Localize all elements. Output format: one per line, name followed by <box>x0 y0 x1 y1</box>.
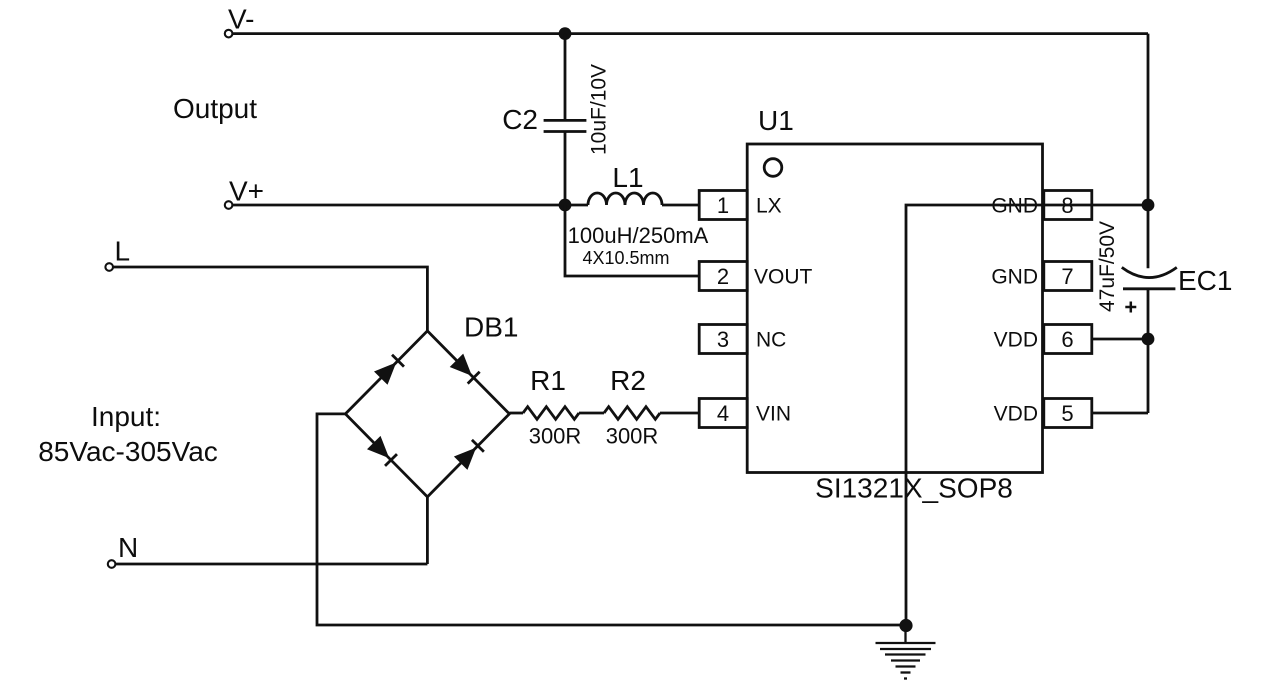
svg-text:4X10.5mm: 4X10.5mm <box>582 248 669 268</box>
svg-text:47uF/50V: 47uF/50V <box>1096 221 1119 312</box>
svg-text:100uH/250mA: 100uH/250mA <box>568 223 709 248</box>
svg-text:U1: U1 <box>758 105 794 136</box>
wire VOUT branch <box>565 205 699 276</box>
terminal V- <box>225 3 255 37</box>
svg-text:C2: C2 <box>502 104 538 135</box>
svg-text:L1: L1 <box>612 162 643 193</box>
terminal L <box>105 236 130 271</box>
capacitor EC1 <box>1122 265 1233 413</box>
svg-text:N: N <box>118 532 138 563</box>
svg-text:6: 6 <box>1061 327 1073 352</box>
svg-text:LX: LX <box>756 195 782 218</box>
svg-text:V-: V- <box>228 3 254 34</box>
ground <box>876 630 936 679</box>
svg-text:VDD: VDD <box>994 403 1038 426</box>
junction dot ground <box>899 619 912 632</box>
bridge DB1 <box>345 312 518 497</box>
wire R2 to pin 4 <box>660 412 699 415</box>
pin 3 box <box>699 325 786 354</box>
svg-text:5: 5 <box>1061 401 1073 426</box>
svg-text:GND: GND <box>991 266 1038 289</box>
wire pin 5 to EC1 column <box>1092 412 1148 415</box>
junction dot GND / EC1 <box>1142 199 1155 212</box>
svg-text:Output: Output <box>173 93 257 124</box>
wire N to bridge bottom <box>116 497 428 564</box>
junction dot pin6 / EC1 <box>1142 333 1155 346</box>
pin 6 box <box>994 325 1092 354</box>
svg-text:4: 4 <box>717 401 729 426</box>
diode D-topleft (anode left vertex) <box>374 354 405 385</box>
junction dot V- / C2 <box>559 27 572 40</box>
svg-text:VOUT: VOUT <box>754 266 813 289</box>
wire bridge plus to R1 <box>509 412 523 415</box>
svg-text:Input:: Input: <box>91 401 161 432</box>
svg-text:VIN: VIN <box>756 403 791 426</box>
terminal V+ <box>225 176 264 209</box>
svg-text:R2: R2 <box>610 365 646 396</box>
resistor R1 <box>523 365 581 449</box>
pin 1 box <box>699 191 781 220</box>
capacitor C2 <box>502 34 586 205</box>
wire L1 to pin 1 <box>662 204 699 207</box>
wire V+ <box>233 204 589 207</box>
pin 8 box <box>991 191 1091 220</box>
wire V- rail <box>233 32 1149 35</box>
junction dot V+ / C2 / L1 <box>559 199 572 212</box>
svg-text:300R: 300R <box>529 424 582 449</box>
wire pin 6 to EC1 <box>1092 338 1148 341</box>
diode D-bottomleft (anode left vertex) <box>367 436 398 467</box>
svg-text:SI1321X_SOP8: SI1321X_SOP8 <box>815 473 1013 504</box>
svg-text:R1: R1 <box>530 365 566 396</box>
svg-text:7: 7 <box>1061 264 1073 289</box>
IC U1 body <box>747 105 1042 473</box>
svg-text:V+: V+ <box>229 176 264 207</box>
svg-text:85Vac-305Vac: 85Vac-305Vac <box>38 436 218 467</box>
terminal N <box>108 532 138 568</box>
svg-text:EC1: EC1 <box>1178 265 1232 296</box>
svg-text:2: 2 <box>717 264 729 289</box>
resistor R2 <box>604 365 660 449</box>
svg-text:300R: 300R <box>606 424 659 449</box>
svg-text:3: 3 <box>717 327 729 352</box>
wire R1 to R2 <box>579 412 604 415</box>
inductor L1 <box>588 162 662 205</box>
svg-text:1: 1 <box>717 193 729 218</box>
pin 7 box <box>991 262 1091 291</box>
svg-text:VDD: VDD <box>994 329 1038 352</box>
wire bridge minus to bottom rail <box>317 414 906 625</box>
diode D-bottomright (cathode right vertex) <box>454 439 485 470</box>
svg-text:DB1: DB1 <box>464 312 518 343</box>
pin 5 box <box>994 399 1092 428</box>
wire L to bridge top <box>113 267 427 331</box>
svg-text:10uF/10V: 10uF/10V <box>588 64 611 155</box>
svg-text:L: L <box>115 236 131 267</box>
svg-text:NC: NC <box>756 329 786 352</box>
wire GND net (pin 8 to EC1 and down to ground) <box>906 205 1148 626</box>
pin 4 box <box>699 399 791 428</box>
wire EC1 top drop <box>1147 34 1150 269</box>
diode D-topright (cathode right vertex) <box>450 354 481 385</box>
pin 2 box <box>699 262 812 291</box>
